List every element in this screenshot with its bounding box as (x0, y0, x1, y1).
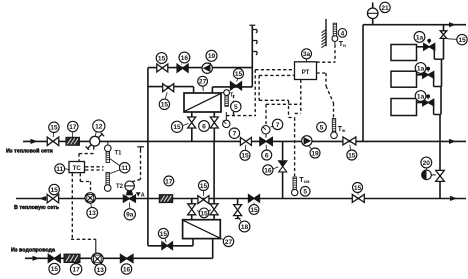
svg-text:15: 15 (51, 266, 59, 273)
svg-text:15: 15 (200, 210, 208, 217)
svg-text:4: 4 (341, 30, 345, 37)
svg-text:15: 15 (241, 153, 249, 160)
svg-text:5: 5 (320, 124, 324, 131)
svg-text:7: 7 (276, 122, 280, 129)
svg-text:15: 15 (51, 187, 59, 194)
svg-text:15: 15 (160, 231, 168, 238)
svg-text:27: 27 (199, 79, 207, 86)
svg-text:15: 15 (161, 102, 169, 109)
svg-text:3а: 3а (303, 51, 311, 58)
svg-text:1а: 1а (416, 34, 424, 41)
svg-text:Из водопровода: Из водопровода (11, 247, 56, 253)
svg-text:А: А (141, 193, 145, 199)
svg-text:16: 16 (123, 266, 131, 273)
svg-text:19: 19 (311, 150, 319, 157)
svg-text:27: 27 (225, 239, 233, 246)
svg-text:15: 15 (235, 71, 243, 78)
svg-text:6: 6 (265, 152, 269, 159)
svg-text:15: 15 (348, 152, 356, 159)
svg-text:21: 21 (381, 5, 389, 12)
svg-text:В тепловую сеть: В тепловую сеть (14, 205, 60, 211)
svg-text:12: 12 (95, 123, 103, 130)
svg-text:Тж: Тж (338, 126, 346, 133)
svg-text:1а: 1а (417, 65, 425, 72)
svg-text:20: 20 (423, 160, 431, 167)
svg-text:15: 15 (50, 125, 58, 132)
svg-text:16: 16 (264, 167, 272, 174)
svg-text:5: 5 (234, 104, 238, 111)
svg-text:15: 15 (354, 185, 362, 192)
svg-text:9а: 9а (126, 212, 134, 219)
svg-text:1а: 1а (417, 93, 425, 100)
svg-text:Т2: Т2 (116, 184, 124, 190)
svg-text:13: 13 (97, 267, 105, 274)
svg-text:5: 5 (303, 189, 307, 196)
svg-text:Тн: Тн (339, 41, 346, 48)
svg-text:15: 15 (173, 124, 181, 131)
svg-text:ТС: ТС (73, 165, 82, 172)
svg-text:17: 17 (165, 178, 173, 185)
svg-text:Тсм: Тсм (299, 177, 310, 184)
svg-text:18: 18 (241, 224, 249, 231)
svg-text:7: 7 (233, 131, 237, 138)
svg-text:15: 15 (458, 37, 466, 44)
svg-text:Тг: Тг (230, 93, 235, 99)
svg-text:13: 13 (89, 210, 97, 217)
svg-text:РТ: РТ (302, 69, 310, 76)
svg-text:15: 15 (158, 55, 166, 62)
svg-text:16: 16 (181, 55, 189, 62)
svg-text:11: 11 (56, 166, 63, 173)
svg-text:15: 15 (200, 183, 208, 190)
svg-text:Т1: Т1 (115, 151, 123, 157)
svg-text:6: 6 (202, 123, 206, 130)
svg-text:17: 17 (69, 124, 77, 131)
svg-text:19: 19 (208, 53, 216, 60)
svg-text:15: 15 (250, 207, 258, 214)
svg-text:11: 11 (121, 165, 128, 172)
svg-text:Из тепловой сети: Из тепловой сети (6, 147, 53, 154)
svg-text:17: 17 (72, 267, 80, 274)
